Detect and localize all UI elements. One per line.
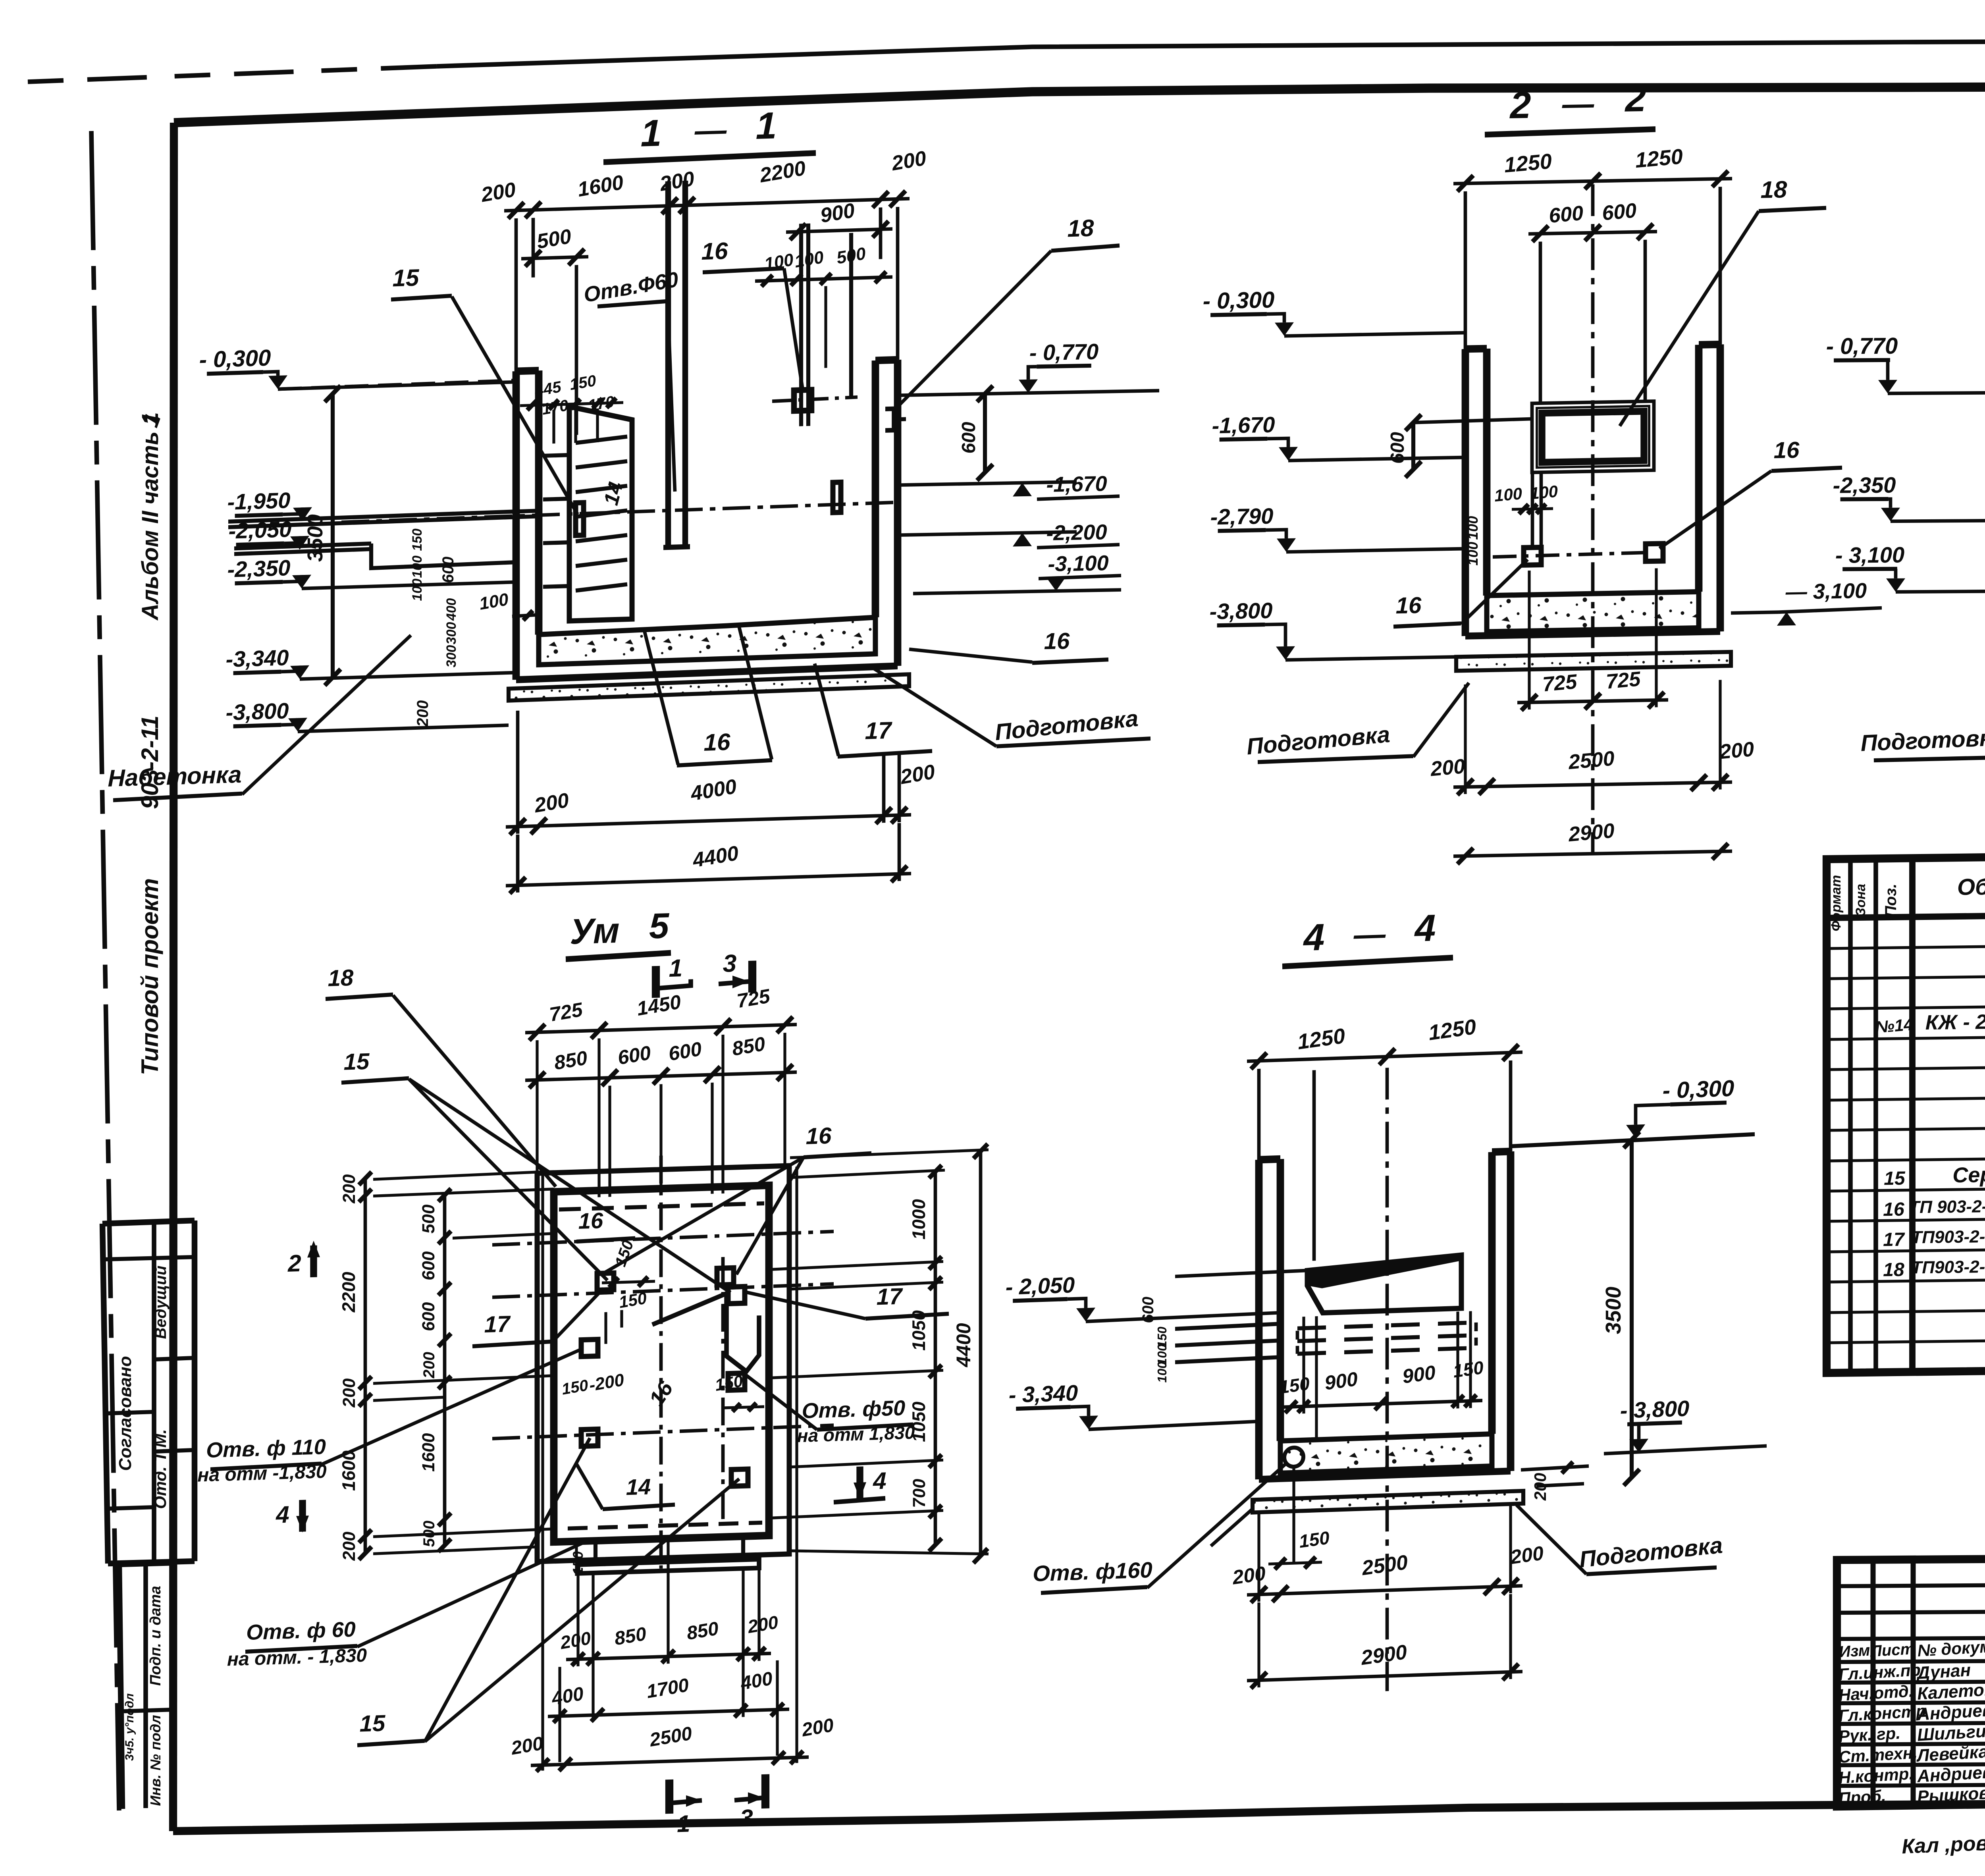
svg-text:4: 4 [1303, 916, 1325, 959]
title block [1837, 1554, 1985, 1859]
svg-text:Формат: Формат [1829, 875, 1844, 931]
svg-text:16: 16 [701, 237, 728, 265]
section 1-1 embedded plate 15 left [576, 503, 584, 536]
svg-text:100: 100 [1529, 482, 1558, 503]
svg-text:903-2-11: 903-2-11 [137, 715, 163, 809]
section 1-1 [108, 93, 1151, 906]
svg-text:Отв. ф160: Отв. ф160 [1033, 1557, 1152, 1586]
spec table column lines [1848, 859, 1853, 1373]
svg-text:4400: 4400 [952, 1323, 975, 1368]
svg-text:100: 100 [410, 578, 425, 601]
svg-text:300: 300 [444, 622, 459, 645]
svg-text:15: 15 [393, 264, 420, 291]
section 4-4 [1006, 896, 1767, 1704]
svg-text:ТП903-2-11 ал.II ч.2 КЖИ-МН2: ТП903-2-11 ал.II ч.2 КЖИ-МН25 [1912, 1255, 1985, 1278]
svg-text:Обозначение: Обозначение [1957, 872, 1985, 900]
svg-text:100: 100 [1465, 542, 1481, 566]
svg-text:14: 14 [626, 1474, 651, 1500]
spec table header row [1827, 908, 1985, 918]
section 2-2 bottom dim 200 2500 200 [1453, 782, 1732, 787]
svg-text:2900: 2900 [1567, 819, 1615, 846]
frame bottom border [173, 1801, 1985, 1831]
plan Um5 right dim 4400 [979, 1151, 983, 1556]
plan Um5 wall rect [554, 1185, 769, 1542]
svg-text:1: 1 [756, 104, 777, 147]
svg-text:3500: 3500 [1601, 1286, 1625, 1334]
svg-text:2: 2 [1625, 77, 1646, 120]
svg-text:4: 4 [1414, 907, 1436, 950]
section 4-4 hole Отв ф160 circle [1284, 1447, 1303, 1467]
svg-text:- 0,300: - 0,300 [1663, 1075, 1734, 1103]
svg-text:200: 200 [414, 700, 432, 727]
sidebar upper stamp box [102, 1220, 195, 1224]
svg-text:16: 16 [1396, 592, 1422, 619]
svg-text:600: 600 [1139, 1296, 1157, 1323]
svg-text:1250: 1250 [1503, 149, 1553, 177]
svg-text:Проб.: Проб. [1838, 1786, 1886, 1808]
section 1-1 pipes entering wall [228, 511, 539, 521]
svg-text:1: 1 [641, 112, 662, 155]
svg-text:600: 600 [1548, 202, 1584, 228]
svg-text:600: 600 [958, 422, 979, 454]
plan Um5 bottom dim 400 1700 400 [548, 1709, 789, 1716]
svg-text:-3,340: -3,340 [226, 645, 289, 672]
svg-text:16: 16 [704, 729, 730, 756]
svg-text:— 3,100: — 3,100 [1785, 579, 1867, 604]
section 2-2 concrete bed [1487, 592, 1699, 632]
svg-text:15: 15 [1884, 1168, 1906, 1190]
section 4-4 left pipes [1175, 1324, 1280, 1329]
svg-text:16: 16 [1774, 437, 1800, 463]
section 2-2 [900, 73, 1882, 874]
section 1-1 plates axis line [341, 502, 893, 522]
frame left border [173, 123, 174, 1831]
plan Um5 bottom dim 200 2500 200 [531, 1757, 809, 1765]
svg-text:Ум: Ум [570, 911, 619, 952]
plan Um5 outer rect (podgotovka) [537, 1166, 789, 1562]
section 4-4 tank outline [1255, 1160, 1263, 1479]
section 1-1 anchor box 16 [794, 390, 811, 411]
section 1-1 top dimension chain [504, 199, 910, 211]
plan Um5 bottom dim 200 850 850 200 [566, 1653, 771, 1659]
svg-text:-2,350: -2,350 [227, 555, 291, 582]
svg-text:—: — [1562, 86, 1594, 121]
svg-text:18: 18 [1761, 176, 1787, 203]
section 1-1 concrete bed (набетонка) [539, 617, 875, 665]
section 1-1 bottom dim 200 4000 200 [506, 815, 911, 827]
section 2-2 dim 600 600 [1528, 231, 1657, 234]
svg-text:16: 16 [1044, 628, 1070, 654]
svg-text:300: 300 [444, 645, 459, 668]
plan Um5 top dim 850 600 600 850 [525, 1072, 797, 1080]
svg-text:150: 150 [1278, 1373, 1310, 1398]
svg-text:-2,350: -2,350 [1833, 472, 1896, 498]
svg-text:Согласовано: Согласовано [116, 1356, 135, 1471]
svg-text:150: 150 [410, 528, 425, 551]
title block outer border [1837, 1555, 1985, 1807]
svg-text:- 0,770: - 0,770 [1029, 339, 1098, 365]
plan Um5 bottom dashed edge [568, 1523, 762, 1529]
section 2-2 window opening 18 [1532, 401, 1654, 472]
sidebar lower stamp box [119, 1563, 173, 1564]
svg-text:18: 18 [328, 965, 354, 991]
sidebar [102, 412, 195, 1809]
svg-text:3ч5. у°подл: 3ч5. у°подл [123, 1693, 136, 1761]
svg-text:725: 725 [1542, 670, 1578, 696]
frame top border [174, 85, 1985, 123]
svg-text:500: 500 [419, 1204, 438, 1234]
plan Um5 axes [492, 1232, 834, 1245]
plan Um5 slope polygon [652, 1292, 759, 1374]
svg-text:Отв. ф 60: Отв. ф 60 [246, 1618, 355, 1645]
svg-text:100: 100 [410, 555, 425, 578]
plan Um5 top dim 725 1450 725 [525, 1024, 797, 1033]
section 4-4 dim 150 900 900 150 [1279, 1400, 1482, 1407]
plan Um5 left dim chain A [364, 1178, 367, 1554]
svg-text:16: 16 [806, 1123, 832, 1149]
section 2-2 bottom dim 2900 [1453, 851, 1732, 856]
plan Um5 [197, 897, 989, 1852]
section 4-4 window slot [1307, 1255, 1461, 1313]
plan Um5 section marks 1 3 bottom [665, 1780, 673, 1814]
section 4-4 bottom dim 2900 [1247, 1672, 1522, 1681]
section 4-4 concrete bed [1280, 1434, 1492, 1473]
svg-text:16: 16 [578, 1208, 603, 1234]
sheet left edge line [91, 131, 119, 1810]
svg-text:Отв. ф50: Отв. ф50 [802, 1396, 905, 1423]
svg-text:-3,100: -3,100 [1048, 551, 1108, 576]
svg-text:Дунан: Дунан [1915, 1660, 1971, 1683]
svg-text:400: 400 [444, 598, 459, 621]
svg-text:2: 2 [1509, 84, 1531, 127]
section 4-4 top dim 1250 1250 [1247, 1052, 1522, 1061]
svg-text:1000: 1000 [908, 1199, 929, 1240]
section 4-4 подготовка strip [1253, 1491, 1523, 1513]
svg-text:1: 1 [669, 954, 682, 982]
svg-text:- 0,770: - 0,770 [1826, 333, 1898, 359]
svg-text:900: 900 [1401, 1361, 1437, 1388]
svg-text:Ведущий: Ведущий [152, 1266, 170, 1339]
svg-text:—: — [694, 112, 727, 148]
svg-text:200: 200 [420, 1352, 438, 1379]
section 1-1 central pipe [665, 181, 671, 548]
svg-text:3: 3 [740, 1805, 753, 1832]
svg-text:2200: 2200 [338, 1271, 359, 1313]
svg-text:Подготовка: Подготовка [1860, 725, 1985, 756]
svg-text:-2,790: -2,790 [1210, 503, 1274, 530]
svg-text:700: 700 [910, 1478, 929, 1508]
section 3-3 [1826, 82, 1985, 858]
svg-text:- 3,340: - 3,340 [1009, 1380, 1078, 1407]
svg-text:100: 100 [1494, 484, 1522, 505]
svg-text:200: 200 [339, 1174, 359, 1204]
svg-text:- 0,300: - 0,300 [1203, 287, 1275, 314]
svg-text:-3,800: -3,800 [226, 698, 289, 725]
section 4-4 corner diagonal [1211, 1509, 1253, 1546]
svg-text:3: 3 [723, 950, 736, 978]
svg-text:725: 725 [1605, 667, 1642, 693]
section 1-1 vertical dim 3500 [331, 394, 335, 677]
svg-text:Подп. и дата: Подп. и дата [147, 1586, 164, 1686]
svg-text:Левейка: Левейка [1916, 1742, 1985, 1766]
title block left rows [1837, 1585, 1985, 1586]
section 1-1 embedded plate 15 right [833, 482, 841, 513]
plan Um5 bottom protrusion [578, 1559, 759, 1573]
svg-text:100: 100 [1465, 516, 1481, 540]
svg-text:600: 600 [439, 556, 457, 583]
sheet edge thin top line [28, 66, 437, 82]
section 1-1 подготовка strip [509, 674, 909, 700]
svg-text:- 3,800: - 3,800 [1620, 1396, 1689, 1423]
section 2-2 tank outline [1462, 349, 1469, 636]
section 2-2 top dim 1250 1250 [1453, 179, 1732, 184]
section 1-1 dims 100 100 500 [755, 277, 892, 281]
plan Um5 anchor squares [597, 1273, 614, 1290]
svg-text:Набетонка: Набетонка [108, 761, 241, 792]
spec table outer border [1827, 850, 1985, 1373]
svg-text:- 2,050: - 2,050 [1006, 1272, 1075, 1300]
plan Um5 inner dashed top edge [559, 1203, 764, 1210]
svg-text:200: 200 [1509, 1542, 1545, 1568]
svg-text:ТП 903-2-11 ал.II ч.2 КЖИ-МН2: ТП 903-2-11 ал.II ч.2 КЖИ-МН26 [1909, 1195, 1985, 1217]
svg-text:1250: 1250 [1634, 145, 1684, 172]
section 1-1 anchor rods [799, 224, 803, 426]
svg-text:2: 2 [287, 1250, 301, 1277]
svg-text:200: 200 [1719, 738, 1755, 764]
plan Um5 right dim chain [934, 1172, 937, 1545]
svg-text:17: 17 [865, 717, 892, 744]
svg-text:ТП903-2-11 ал.II ч.2 КЖИ-МН: ТП903-2-11 ал.II ч.2 КЖИ-МН27 [1912, 1225, 1985, 1247]
svg-text:-3,800: -3,800 [1210, 598, 1273, 624]
section 1-1 tank outline [513, 371, 520, 680]
svg-text:200: 200 [339, 1378, 359, 1408]
section 4-4 bottom dim 200 2500 200 [1247, 1586, 1522, 1595]
plan Um5 left dim chain B [443, 1195, 447, 1545]
svg-text:900: 900 [1324, 1368, 1359, 1394]
section 2-2 bottom dims 725 725 [1517, 700, 1668, 703]
svg-text:600: 600 [1387, 432, 1408, 464]
svg-text:150: 150 [1298, 1527, 1330, 1552]
svg-text:Рышков: Рышков [1917, 1783, 1985, 1807]
svg-text:-1,950: -1,950 [227, 488, 291, 515]
svg-text:4: 4 [276, 1501, 289, 1528]
svg-text:2500: 2500 [1567, 747, 1615, 774]
svg-text:№14: №14 [1875, 1015, 1914, 1037]
svg-text:200: 200 [1430, 755, 1466, 781]
section 4-4 dashed band rows [1297, 1323, 1476, 1328]
section 1-1 bottom dim 4400 [506, 873, 911, 886]
plan Um5 section marks 1 3 top [652, 966, 660, 998]
svg-text:18: 18 [1883, 1259, 1904, 1281]
svg-text:Поз.: Поз. [1882, 883, 1900, 917]
section 2-2 center axis [1591, 184, 1595, 855]
svg-text:- 3,100: - 3,100 [1835, 542, 1904, 568]
svg-text:600: 600 [419, 1301, 438, 1331]
section 1-1 dim 900 [786, 229, 892, 232]
specification table [1827, 850, 1985, 1373]
svg-text:-1,670: -1,670 [1212, 412, 1275, 438]
svg-text:Сер. 3.400-6: Сер. 3.400-6 [1952, 1162, 1985, 1187]
svg-text:18: 18 [1068, 214, 1094, 242]
svg-text:15: 15 [360, 1710, 385, 1737]
svg-text:15: 15 [344, 1049, 370, 1075]
svg-text:17: 17 [1883, 1229, 1905, 1251]
svg-text:Изм: Изм [1839, 1642, 1870, 1661]
svg-text:Зона: Зона [1853, 884, 1868, 917]
svg-text:600: 600 [419, 1251, 438, 1280]
section 4-4 center axis [1386, 1068, 1389, 1691]
svg-text:5: 5 [649, 906, 670, 947]
svg-text:Калетов: Калетов [1917, 1679, 1985, 1703]
section 2-2 подготовка strip [1456, 652, 1731, 671]
section 2-2 anchor boxes 16 [1524, 548, 1541, 565]
svg-text:1600: 1600 [419, 1433, 438, 1472]
section 4-4 dim 3500 [1630, 1140, 1634, 1477]
svg-text:16: 16 [1883, 1199, 1904, 1220]
svg-text:100: 100 [1155, 1361, 1169, 1383]
svg-text:КЖ - 21 комплект: КЖ - 21 комплект [1925, 1009, 1985, 1034]
svg-text:600: 600 [1601, 199, 1638, 225]
svg-text:17: 17 [484, 1311, 511, 1338]
svg-text:-1,670: -1,670 [1046, 472, 1107, 497]
svg-text:17: 17 [877, 1283, 903, 1310]
title block left columns [1871, 1560, 1876, 1806]
svg-text:200: 200 [339, 1531, 359, 1561]
svg-text:Рук. гр.: Рук. гр. [1838, 1724, 1901, 1746]
section 1-1 dim 500 [521, 257, 588, 259]
svg-text:- 0,300: - 0,300 [199, 345, 271, 373]
svg-text:4: 4 [873, 1467, 886, 1494]
section 1-1 formwork panel [569, 405, 632, 621]
svg-text:Инв. № подл: Инв. № подл [147, 1715, 164, 1806]
svg-text:Отд. Т.М.: Отд. Т.М. [151, 1429, 170, 1509]
section 1-1 right wall bracket [885, 409, 894, 430]
svg-text:-2,050: -2,050 [229, 517, 292, 544]
svg-text:Альбом II часть 1: Альбом II часть 1 [137, 412, 163, 621]
svg-text:—: — [1353, 916, 1386, 952]
svg-text:Отв. ф 110: Отв. ф 110 [206, 1435, 326, 1462]
svg-text:200: 200 [1231, 1562, 1267, 1589]
svg-text:Типовой проект: Типовой проект [137, 878, 163, 1075]
svg-text:1: 1 [677, 1810, 690, 1837]
svg-text:Лист: Лист [1869, 1640, 1915, 1660]
